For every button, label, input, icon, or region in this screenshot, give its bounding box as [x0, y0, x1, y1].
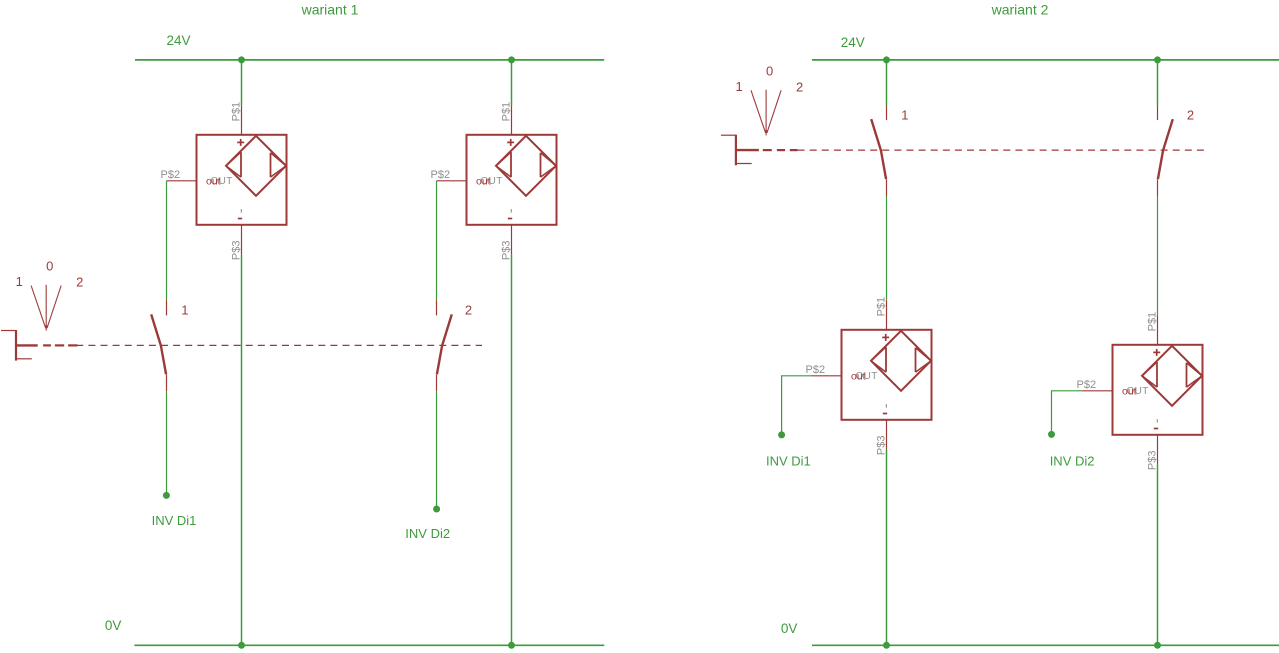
OK1 (variant 1) bridge diamond — [226, 136, 286, 196]
pin P$3 of OK1 (variant 1) — [241, 225, 243, 255]
OK1 (variant 2) left diode — [871, 347, 886, 372]
svg-text:P$1: P$1 — [876, 297, 888, 317]
OK2 (variant 2) left diode — [1142, 362, 1157, 387]
OK2 (variant 1) minus mark — [508, 209, 512, 218]
svg-text:P$1: P$1 — [501, 102, 513, 122]
pin P$1 of OK2 (variant 2) — [1157, 315, 1159, 345]
junction: 0V rail / OK2 (variant 2) — [1154, 642, 1161, 649]
pin P$2 of OK1 (variant 1) — [167, 180, 197, 182]
pin of switch S1 (variant 1) top contact — [166, 300, 168, 315]
wire: S1 to net INV Di1 (variant 1) — [166, 391, 168, 495]
switch S1 (variant 2) blade — [871, 119, 886, 179]
selector actuator (variant 1) position-1 stroke — [31, 286, 46, 329]
wire: OK1 P$3 to 0V rail (variant 2) — [886, 450, 888, 646]
switch S2 (variant 2) blade — [1158, 119, 1173, 179]
svg-text:1: 1 — [735, 79, 742, 94]
svg-text:out: out — [851, 370, 866, 382]
svg-text:P$2: P$2 — [161, 169, 181, 181]
selector actuator (variant 1) position-0 stroke with arrow — [45, 285, 48, 331]
pin P$1 of OK2 (variant 1) — [511, 105, 513, 135]
svg-text:0: 0 — [46, 259, 53, 274]
actuator (variant 2) linkage dashed line — [736, 149, 1205, 151]
svg-text:out: out — [1122, 385, 1137, 397]
wire: 24V rail to switch S1 (variant 2) — [886, 60, 888, 105]
svg-text:P$1: P$1 — [231, 102, 243, 122]
switch S2 (variant 1) blade — [437, 314, 452, 374]
svg-text:wariant 2: wariant 2 — [991, 1, 1049, 17]
node INV Di2 wire-end dot (variant 2) — [1048, 431, 1055, 438]
actuator anchor bracket (variant 1) bottom arm — [16, 358, 32, 360]
pin P$2 of OK2 (variant 2) — [1083, 390, 1113, 392]
OK1 (variant 1) plus mark — [237, 139, 244, 146]
selector actuator (variant 1) position-2 stroke — [47, 286, 61, 329]
junction: 24V rail / OK1 (variant 1) — [238, 56, 245, 63]
selector actuator (variant 2) position-0 stroke with arrow — [765, 90, 768, 136]
junction: 0V rail / OK1 (variant 2) — [883, 642, 890, 649]
OK2 (variant 1) right diode — [541, 153, 557, 177]
pin of switch S2 (variant 2) bottom contact — [1157, 179, 1159, 196]
wire: OK1 P$2 to net INV Di1 (variant 2) — [782, 376, 812, 435]
svg-text:P$2: P$2 — [431, 169, 451, 181]
actuator anchor bracket (variant 2) top arm — [721, 134, 736, 136]
svg-text:1: 1 — [181, 303, 188, 318]
pin of switch S2 (variant 1) bottom contact — [436, 375, 438, 392]
junction: 24V rail / OK2 (variant 1) — [508, 56, 515, 63]
pin P$3 of OK2 (variant 2) — [1157, 435, 1159, 465]
OK2 (variant 1) left diode — [496, 152, 511, 177]
wire: OK2 P$3 to 0V rail (variant 2) — [1157, 465, 1159, 646]
optocoupler OK2 (variant 1) body — [467, 135, 557, 225]
wire: 24V rail to OK1 P$1 — [241, 60, 243, 105]
OK2 (variant 1) bridge diamond — [496, 136, 556, 196]
svg-text:24V: 24V — [167, 33, 191, 48]
svg-text:1: 1 — [901, 107, 908, 122]
junction: 24V rail / S1 (variant 2) — [883, 56, 890, 63]
OK1 (variant 2) plus mark — [882, 334, 889, 341]
wire: S2 to net INV Di2 (variant 1) — [436, 391, 438, 509]
svg-text:P$3: P$3 — [230, 241, 242, 261]
svg-text:P$2: P$2 — [1077, 379, 1097, 391]
svg-text:P$3: P$3 — [875, 436, 887, 456]
OK2 (variant 2) bridge diamond — [1142, 346, 1202, 406]
pin P$1 of OK1 (variant 2) — [886, 300, 888, 330]
wire: 24V rail to switch S2 (variant 2) — [1157, 60, 1159, 105]
svg-text:0: 0 — [766, 63, 773, 78]
svg-text:1: 1 — [16, 274, 23, 289]
wire: S1 to OK1 P$1 (variant 2) — [886, 196, 888, 300]
OK1 (variant 2) bridge diamond — [871, 331, 931, 391]
OK2 (variant 2) right diode — [1187, 363, 1203, 387]
svg-text:P$3: P$3 — [500, 241, 512, 261]
node INV Di1 wire-end dot (variant 2) — [778, 431, 785, 438]
actuator anchor bracket (variant 1) top arm — [1, 330, 16, 332]
node INV Di1 wire-end dot (variant 1) — [163, 492, 170, 499]
svg-text:P$2: P$2 — [806, 364, 826, 376]
optocoupler OK1 (variant 2) body — [842, 330, 932, 420]
optocoupler OK1 (variant 1) body — [197, 135, 287, 225]
svg-text:out: out — [206, 175, 221, 187]
svg-text:out: out — [476, 175, 491, 187]
wire: OK1 P$3 to 0V rail (variant 1) — [241, 255, 243, 646]
selector actuator (variant 2) position-1 stroke — [751, 90, 766, 133]
optocoupler OK2 (variant 2) body — [1113, 345, 1203, 435]
pin of switch S1 (variant 1) bottom contact — [166, 375, 168, 392]
OK1 (variant 2) minus mark — [883, 404, 887, 413]
svg-text:INV Di2: INV Di2 — [1050, 453, 1095, 468]
pin P$2 of OK2 (variant 1) — [437, 180, 467, 182]
wire: OK2 P$3 to 0V rail (variant 1) — [511, 255, 513, 646]
svg-text:INV Di1: INV Di1 — [152, 513, 197, 528]
wire: 24V rail (variant 1) — [135, 59, 604, 61]
OK2 (variant 1) plus mark — [507, 139, 514, 146]
junction: 0V rail / OK1 (variant 1) — [238, 642, 245, 649]
wire: OK1 P$2 to switch S1 (variant 1) — [166, 181, 168, 301]
svg-text:INV Di1: INV Di1 — [766, 453, 811, 468]
pin P$3 of OK2 (variant 1) — [511, 225, 513, 255]
wire: 24V rail (variant 2) — [812, 59, 1279, 61]
OK1 (variant 2) right diode — [916, 348, 932, 372]
actuator anchor bracket (variant 2) bottom arm — [736, 163, 752, 165]
pin P$1 of OK1 (variant 1) — [241, 105, 243, 135]
wire: 0V rail (variant 1) — [134, 644, 604, 646]
svg-text:0V: 0V — [105, 618, 122, 633]
OK1 (variant 1) left diode — [226, 152, 241, 177]
svg-text:24V: 24V — [841, 35, 865, 50]
OK1 (variant 1) minus mark — [238, 209, 242, 218]
actuator (variant 1) linkage dashed line — [17, 344, 482, 346]
svg-text:2: 2 — [796, 79, 803, 94]
pin P$2 of OK1 (variant 2) — [812, 375, 842, 377]
junction: 0V rail / OK2 (variant 1) — [508, 642, 515, 649]
OK1 (variant 1) right diode — [271, 153, 287, 177]
pin of switch S2 (variant 1) top contact — [436, 300, 438, 315]
OK2 (variant 2) plus mark — [1153, 349, 1160, 356]
pin of switch S1 (variant 2) bottom contact — [886, 179, 888, 196]
svg-text:2: 2 — [465, 303, 472, 318]
wire: OK2 P$2 to switch S2 (variant 1) — [436, 181, 438, 301]
wire: OK2 P$2 to net INV Di2 (variant 2) — [1052, 391, 1083, 435]
switch S1 (variant 1) blade — [151, 314, 166, 374]
svg-text:P$3: P$3 — [1146, 451, 1158, 471]
pin P$3 of OK1 (variant 2) — [886, 420, 888, 450]
OK2 (variant 2) minus mark — [1154, 419, 1158, 428]
svg-text:P$1: P$1 — [1147, 312, 1159, 332]
wire: S2 to OK2 P$1 (variant 2) — [1157, 196, 1159, 315]
svg-text:2: 2 — [1187, 107, 1194, 122]
wire: 24V rail to OK2 P$1 — [511, 60, 513, 105]
svg-text:0V: 0V — [781, 621, 798, 636]
junction: 24V rail / S2 (variant 2) — [1154, 56, 1161, 63]
svg-text:2: 2 — [76, 275, 83, 290]
wire: 0V rail (variant 2) — [812, 644, 1279, 646]
selector actuator (variant 2) position-2 stroke — [767, 90, 781, 133]
pin of switch S1 (variant 2) top contact — [886, 105, 888, 120]
actuator anchor bracket (variant 2) post — [735, 135, 737, 166]
node INV Di2 wire-end dot (variant 1) — [433, 506, 440, 513]
pin of switch S2 (variant 2) top contact — [1157, 105, 1159, 120]
svg-text:wariant 1: wariant 1 — [301, 1, 359, 17]
actuator anchor bracket (variant 1) post — [15, 330, 17, 361]
svg-text:INV Di2: INV Di2 — [405, 526, 450, 541]
